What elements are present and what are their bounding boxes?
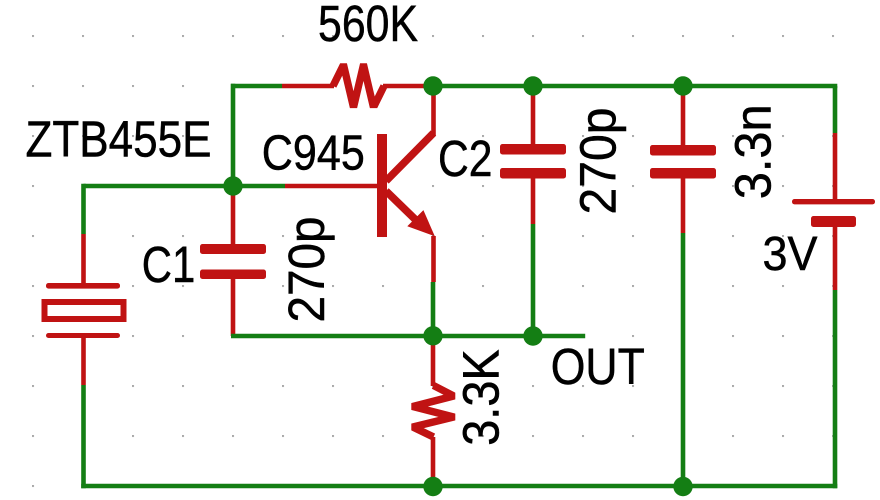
svg-text:OUT: OUT xyxy=(551,338,645,395)
capacitor C3 3.3n top plate xyxy=(650,145,716,156)
wire battery top green xyxy=(833,86,838,133)
resonator X1 ZTB455E bottom plate xyxy=(46,333,120,338)
wire capacitor C2 top lead red xyxy=(531,88,536,144)
battery BT1 positive plate xyxy=(792,199,875,204)
wire bottom rail xyxy=(81,484,837,489)
capacitor C1 top plate xyxy=(200,244,266,254)
wire resistor R1 left lead xyxy=(282,84,334,89)
svg-text:3V: 3V xyxy=(763,227,819,281)
wire emitter vertical red xyxy=(431,236,436,282)
junction node R2 bottom xyxy=(423,477,442,496)
wire capacitor C1 top lead red xyxy=(231,188,236,244)
svg-text:270p: 270p xyxy=(278,217,335,323)
wire transistor collector vertical red xyxy=(431,88,436,136)
wire top rail left green xyxy=(231,84,282,89)
resonator X1 ZTB455E top plate xyxy=(46,283,120,289)
svg-text:3.3n: 3.3n xyxy=(724,104,781,199)
wire mid net horizontal xyxy=(231,334,585,339)
junction node C2/mid OUT xyxy=(523,326,542,345)
capacitor C3 3.3n bottom plate xyxy=(650,168,716,179)
wire emitter vertical green xyxy=(431,282,436,336)
wire battery BT1 bottom lead red xyxy=(833,227,838,290)
wire resonator X1 top lead red xyxy=(81,234,86,283)
wire left drop from top rail xyxy=(231,84,236,186)
svg-text:C2: C2 xyxy=(438,130,493,187)
svg-text:C945: C945 xyxy=(262,126,365,181)
wire transistor base lead red xyxy=(285,184,377,189)
capacitor C2 bottom plate xyxy=(500,168,566,179)
junction node C3 top xyxy=(673,76,692,95)
resonator X1 ZTB455E body rectangle xyxy=(45,302,124,319)
resistor R1 560K zigzag xyxy=(333,65,384,108)
wire resistor R1 right lead xyxy=(383,84,433,89)
wire resistor R2 top lead red xyxy=(431,338,436,386)
capacitor C2 top plate xyxy=(500,144,566,155)
junction node base/C1 xyxy=(223,176,242,195)
wire capacitor C1 bottom lead red xyxy=(231,279,236,336)
wire battery bottom green xyxy=(833,290,838,488)
junction node C2 top xyxy=(523,76,542,95)
wire resonator X1 bottom lead red xyxy=(81,338,86,385)
resistor R2 3.3K zigzag xyxy=(413,386,454,438)
svg-text:ZTB455E: ZTB455E xyxy=(26,110,212,167)
wire base net horizontal xyxy=(84,184,286,189)
junction node collector/560K xyxy=(423,76,442,95)
wire C2 drop green xyxy=(531,224,536,336)
wire top rail right green xyxy=(433,84,837,89)
wire resonator bottom vertical green xyxy=(81,385,86,488)
svg-text:C1: C1 xyxy=(142,236,196,293)
junction node emitter/mid xyxy=(423,326,442,345)
junction node C3 bottom xyxy=(673,477,692,496)
wire C3 drop green xyxy=(681,233,686,486)
transistor Q1 collector diagonal xyxy=(386,133,434,181)
wire capacitor C3 bottom lead red xyxy=(681,178,686,233)
battery BT1 negative plate xyxy=(811,216,856,227)
wire capacitor C3 top lead red xyxy=(681,88,686,145)
transistor Q1 base bar xyxy=(377,134,387,237)
capacitor C1 bottom plate xyxy=(200,270,266,280)
wire capacitor C2 bottom lead red xyxy=(531,178,536,224)
wire battery BT1 top lead red xyxy=(833,133,838,199)
svg-text:560K: 560K xyxy=(318,0,418,52)
svg-text:3.3K: 3.3K xyxy=(452,349,509,446)
svg-text:270p: 270p xyxy=(570,108,627,215)
transistor Q1 emitter arrowhead xyxy=(407,210,435,236)
transistor Q1 emitter diagonal xyxy=(386,191,421,225)
wire resonator top vertical green xyxy=(81,184,86,234)
wire resistor R2 bottom lead red xyxy=(431,437,436,486)
